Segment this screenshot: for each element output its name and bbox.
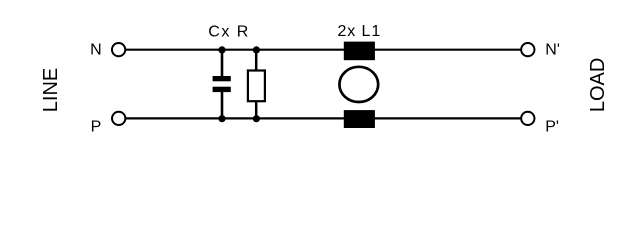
capacitor Cx top plate xyxy=(213,76,231,81)
svg-text:P: P xyxy=(91,118,102,135)
inductor L1 bottom winding xyxy=(344,110,375,128)
capacitor Cx top lead xyxy=(221,50,224,77)
terminal N xyxy=(112,43,125,56)
resistor R bottom lead xyxy=(255,101,258,118)
terminal P' xyxy=(521,112,534,125)
svg-text:LOAD: LOAD xyxy=(587,58,609,112)
svg-text:2x L1: 2x L1 xyxy=(338,23,382,40)
svg-text:Cx R: Cx R xyxy=(208,24,250,41)
inductor L1 top winding xyxy=(344,42,375,61)
svg-text:P': P' xyxy=(545,118,559,135)
svg-text:N: N xyxy=(90,42,102,59)
wire top (N to N') xyxy=(126,49,520,51)
inductor L1 core xyxy=(339,67,378,102)
wire bottom (P to P') xyxy=(126,117,520,119)
junction dot top resistor xyxy=(253,46,260,53)
resistor R top lead xyxy=(255,50,258,71)
junction dot bottom resistor xyxy=(253,115,260,122)
svg-text:N': N' xyxy=(545,42,560,59)
junction dot bottom capacitor xyxy=(218,115,225,122)
capacitor Cx bottom plate xyxy=(213,87,231,92)
junction dot top capacitor xyxy=(218,46,225,53)
svg-text:LINE: LINE xyxy=(40,68,62,112)
terminal P xyxy=(112,112,125,125)
capacitor Cx bottom lead xyxy=(221,92,224,118)
terminal N' xyxy=(521,43,534,56)
resistor R body xyxy=(248,71,265,102)
